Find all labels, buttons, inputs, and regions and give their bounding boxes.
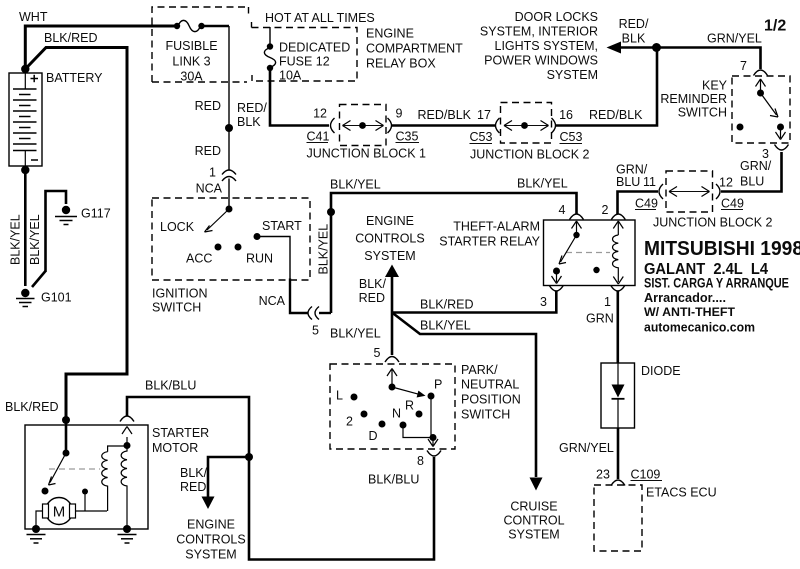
svg-text:THEFT-ALARM: THEFT-ALARM: [453, 220, 540, 234]
svg-text:CONTROLS: CONTROLS: [355, 232, 424, 246]
svg-text:1: 1: [604, 295, 611, 309]
svg-text:SYSTEM: SYSTEM: [547, 68, 598, 82]
svg-text:RED: RED: [359, 291, 385, 305]
svg-text:ENGINE: ENGINE: [187, 518, 235, 532]
svg-text:ENGINE: ENGINE: [366, 27, 414, 41]
svg-text:BLU: BLU: [740, 175, 764, 189]
svg-text:R: R: [405, 399, 414, 413]
svg-text:JUNCTION BLOCK 2: JUNCTION BLOCK 2: [470, 148, 590, 162]
svg-text:RED/BLK: RED/BLK: [589, 108, 643, 122]
svg-text:9: 9: [396, 107, 403, 121]
svg-text:M: M: [53, 504, 66, 521]
svg-text:BLK/RED: BLK/RED: [5, 400, 59, 414]
svg-text:HOT AT ALL TIMES: HOT AT ALL TIMES: [265, 11, 375, 25]
svg-text:1: 1: [209, 166, 216, 180]
svg-text:START: START: [262, 219, 302, 233]
svg-text:BLK/RED: BLK/RED: [420, 298, 474, 312]
svg-text:C53: C53: [470, 130, 493, 144]
svg-text:GRN: GRN: [586, 312, 614, 326]
svg-text:DOOR LOCKS: DOOR LOCKS: [515, 10, 598, 24]
svg-text:GRN/YEL: GRN/YEL: [559, 441, 614, 455]
svg-text:BLK/: BLK/: [359, 277, 387, 291]
svg-text:RED/: RED/: [619, 17, 649, 31]
svg-text:ENGINE: ENGINE: [366, 214, 414, 228]
svg-text:BLK/: BLK/: [180, 466, 208, 480]
svg-text:JUNCTION BLOCK 1: JUNCTION BLOCK 1: [307, 147, 427, 161]
svg-text:C41: C41: [307, 130, 330, 144]
svg-text:DEDICATED: DEDICATED: [279, 41, 350, 55]
svg-text:SWITCH: SWITCH: [461, 408, 510, 422]
svg-text:N: N: [392, 407, 401, 421]
svg-text:30A: 30A: [180, 70, 203, 84]
svg-text:BLK/YEL: BLK/YEL: [330, 327, 381, 341]
svg-text:8: 8: [417, 454, 424, 468]
svg-text:automecanico.com: automecanico.com: [644, 320, 755, 335]
svg-text:RED: RED: [195, 144, 221, 158]
svg-text:D: D: [369, 429, 378, 443]
svg-text:7: 7: [740, 59, 747, 73]
svg-text:5: 5: [374, 346, 381, 360]
svg-text:12: 12: [719, 176, 733, 190]
svg-text:1/2: 1/2: [764, 18, 786, 35]
svg-text:IGNITION: IGNITION: [152, 287, 208, 301]
svg-text:2: 2: [602, 203, 609, 217]
svg-text:CONTROLS: CONTROLS: [176, 533, 245, 547]
svg-text:W/ ANTI-THEFT: W/ ANTI-THEFT: [644, 305, 735, 319]
svg-text:RELAY BOX: RELAY BOX: [366, 57, 436, 71]
svg-text:RUN: RUN: [246, 252, 273, 266]
svg-text:BLK/YEL: BLK/YEL: [28, 214, 42, 265]
svg-text:P: P: [434, 378, 442, 392]
svg-text:SWITCH: SWITCH: [678, 106, 727, 120]
svg-text:MITSUBISHI 1998: MITSUBISHI 1998: [644, 238, 800, 260]
svg-text:BATTERY: BATTERY: [46, 71, 103, 85]
svg-text:L: L: [336, 389, 343, 403]
svg-text:G117: G117: [81, 207, 111, 221]
svg-text:BLK/BLU: BLK/BLU: [145, 379, 196, 393]
svg-text:GRN/YEL: GRN/YEL: [707, 32, 762, 46]
svg-text:FUSIBLE: FUSIBLE: [165, 39, 217, 53]
svg-text:COMPARTMENT: COMPARTMENT: [366, 42, 463, 56]
svg-text:C49: C49: [721, 197, 744, 211]
svg-text:G101: G101: [41, 291, 72, 305]
svg-text:BLU: BLU: [616, 175, 640, 189]
svg-text:POWER WINDOWS: POWER WINDOWS: [484, 54, 598, 68]
svg-text:17: 17: [477, 108, 491, 122]
svg-text:C35: C35: [396, 130, 419, 144]
svg-text:12: 12: [313, 107, 327, 121]
svg-text:SWITCH: SWITCH: [152, 301, 201, 315]
svg-text:MOTOR: MOTOR: [152, 441, 198, 455]
svg-text:NEUTRAL: NEUTRAL: [461, 378, 519, 392]
svg-text:BLK: BLK: [622, 32, 646, 46]
svg-text:C49: C49: [635, 197, 658, 211]
svg-text:Arrancador....: Arrancador....: [644, 291, 726, 305]
svg-text:WHT: WHT: [19, 10, 48, 24]
svg-text:16: 16: [559, 108, 573, 122]
svg-text:BLK: BLK: [237, 115, 261, 129]
svg-text:BLK/YEL: BLK/YEL: [420, 319, 471, 333]
svg-text:C109: C109: [631, 468, 661, 482]
svg-text:RED/: RED/: [237, 101, 267, 115]
svg-text:BLK/YEL: BLK/YEL: [9, 214, 23, 265]
svg-text:JUNCTION BLOCK 2: JUNCTION BLOCK 2: [653, 216, 773, 230]
svg-text:DIODE: DIODE: [641, 364, 681, 378]
svg-text:STARTER RELAY: STARTER RELAY: [439, 235, 540, 249]
svg-text:LINK 3: LINK 3: [172, 55, 210, 69]
svg-text:GRN/: GRN/: [740, 159, 772, 173]
svg-text:23: 23: [596, 468, 610, 482]
svg-text:NCA: NCA: [259, 294, 286, 308]
svg-text:C53: C53: [560, 130, 583, 144]
svg-text:SYSTEM: SYSTEM: [185, 548, 236, 562]
svg-text:BLK/YEL: BLK/YEL: [317, 224, 331, 275]
svg-text:LOCK: LOCK: [160, 220, 195, 234]
svg-text:RED: RED: [195, 99, 221, 113]
svg-text:SYSTEM: SYSTEM: [508, 528, 559, 542]
svg-text:BLK/BLU: BLK/BLU: [368, 473, 419, 487]
svg-text:BLK/YEL: BLK/YEL: [330, 178, 381, 192]
svg-text:5: 5: [312, 324, 319, 338]
svg-text:SIST. CARGA Y ARRANQUE: SIST. CARGA Y ARRANQUE: [644, 276, 789, 291]
svg-text:10A: 10A: [279, 69, 302, 83]
svg-text:3: 3: [540, 295, 547, 309]
svg-text:BLK/YEL: BLK/YEL: [517, 177, 568, 191]
svg-text:4: 4: [559, 203, 566, 217]
svg-text:RED/BLK: RED/BLK: [418, 108, 472, 122]
svg-text:BLK/RED: BLK/RED: [44, 31, 98, 45]
svg-text:SYSTEM, INTERIOR: SYSTEM, INTERIOR: [480, 25, 598, 39]
svg-text:ACC: ACC: [186, 252, 212, 266]
svg-text:STARTER: STARTER: [152, 426, 209, 440]
svg-text:PARK/: PARK/: [461, 363, 498, 377]
svg-text:KEY: KEY: [702, 79, 728, 93]
svg-text:POSITION: POSITION: [461, 393, 521, 407]
svg-text:NCA: NCA: [196, 182, 223, 196]
svg-text:ETACS ECU: ETACS ECU: [646, 486, 717, 500]
svg-text:FUSE 12: FUSE 12: [279, 55, 330, 69]
svg-text:11: 11: [643, 175, 656, 189]
svg-text:RED: RED: [180, 480, 206, 494]
svg-text:LIGHTS SYSTEM,: LIGHTS SYSTEM,: [495, 39, 599, 53]
svg-text:REMINDER: REMINDER: [660, 92, 727, 106]
svg-text:SYSTEM: SYSTEM: [364, 249, 415, 263]
svg-text:CONTROL: CONTROL: [503, 514, 564, 528]
svg-text:2: 2: [346, 415, 353, 429]
svg-text:CRUISE: CRUISE: [510, 500, 557, 514]
